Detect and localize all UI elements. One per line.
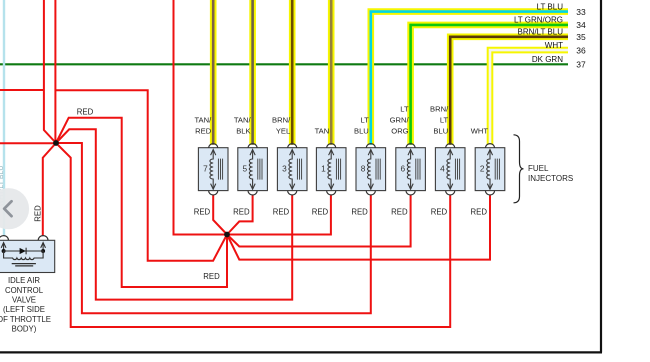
svg-text:33: 33 [576,7,586,17]
svg-text:1: 1 [321,164,326,174]
svg-text:TAN/: TAN/ [234,116,252,125]
svg-text:LT BLU: LT BLU [537,2,564,11]
svg-text:BRN/LT BLU: BRN/LT BLU [518,28,564,37]
svg-text:LT: LT [400,105,409,114]
svg-text:6: 6 [400,164,405,174]
svg-text:TAN/: TAN/ [194,116,212,125]
svg-text:BRN/: BRN/ [272,116,291,125]
svg-text:RED: RED [312,207,329,216]
svg-text:7: 7 [203,164,208,174]
svg-text:(LEFT SIDE: (LEFT SIDE [3,305,45,314]
svg-text:INJECTORS: INJECTORS [528,174,573,183]
svg-text:34: 34 [576,20,586,30]
svg-text:RED: RED [77,108,94,117]
svg-text:WHT: WHT [471,127,489,136]
svg-text:WHT: WHT [545,41,563,50]
svg-text:35: 35 [576,32,586,42]
svg-text:36: 36 [576,45,586,55]
svg-text:YEL: YEL [276,127,290,136]
svg-text:DK GRN: DK GRN [532,55,563,64]
svg-text:8: 8 [361,164,366,174]
svg-text:RED: RED [203,272,220,281]
svg-text:BLU: BLU [354,127,369,136]
svg-text:37: 37 [576,60,586,70]
svg-text:CONTROL: CONTROL [5,286,44,295]
svg-text:RED: RED [233,207,250,216]
svg-text:LT: LT [440,116,449,125]
svg-text:TAN: TAN [315,127,330,136]
svg-text:BLU: BLU [433,127,448,136]
svg-text:4: 4 [440,164,445,174]
svg-text:LT GRN/ORG: LT GRN/ORG [514,16,563,25]
svg-text:RED: RED [195,127,212,136]
svg-text:BRN/: BRN/ [430,105,449,114]
svg-text:2: 2 [480,164,485,174]
svg-text:RED: RED [391,207,408,216]
svg-text:RED: RED [431,207,448,216]
svg-text:RED: RED [351,207,368,216]
svg-text:FUEL: FUEL [528,164,549,173]
svg-text:3: 3 [282,164,287,174]
svg-text:VALVE: VALVE [12,296,36,305]
svg-text:LT: LT [360,116,369,125]
svg-text:RED: RED [471,207,488,216]
svg-text:RED: RED [273,207,290,216]
svg-text:GRN/: GRN/ [390,116,410,125]
svg-text:IDLE AIR: IDLE AIR [8,276,40,285]
svg-text:RED: RED [194,207,211,216]
svg-text:ORG: ORG [391,127,408,136]
svg-text:BLK: BLK [236,127,250,136]
svg-text:5: 5 [242,164,247,174]
svg-text:OF THROTTLE: OF THROTTLE [0,315,51,324]
svg-text:RED: RED [34,205,43,222]
svg-text:BODY): BODY) [12,325,37,334]
